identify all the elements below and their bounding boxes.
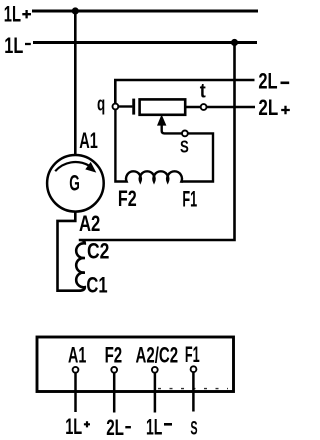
- dotted marks inside box bottom: [158, 388, 228, 390]
- label A2: [79, 211, 100, 236]
- terminal t circle: [201, 104, 207, 110]
- label t: [200, 81, 206, 103]
- box terminal circle F2: [111, 367, 117, 373]
- label F1: [182, 187, 197, 212]
- plus sign of 2L+: [281, 106, 290, 115]
- svg-text:C2: C2: [87, 238, 109, 263]
- svg-text:G: G: [69, 170, 80, 195]
- box label A2/C2: [136, 342, 179, 367]
- svg-text:1L: 1L: [146, 414, 162, 439]
- svg-text:t: t: [200, 81, 206, 103]
- minus sign of 2L-: [281, 82, 290, 85]
- terminal q circle: [113, 104, 119, 110]
- svg-text:F2: F2: [118, 186, 137, 211]
- wire 1L+ bus: [32, 10, 258, 13]
- box terminal circle A1: [73, 367, 79, 373]
- box label F2: [105, 342, 123, 367]
- label 1L-: [4, 33, 23, 58]
- label 2L+: [258, 95, 278, 120]
- svg-text:1L: 1L: [4, 33, 23, 58]
- shunt field winding F2-F1: [115, 109, 183, 181]
- stub wire F2 terminal: [113, 373, 116, 413]
- label C1: [86, 273, 107, 298]
- wire from 1L+ down to armature A1: [74, 11, 77, 155]
- label C2: [87, 238, 109, 263]
- svg-text:1L: 1L: [65, 414, 82, 439]
- stub wire A2/C2 terminal: [154, 373, 157, 413]
- wire S loop to F1 end: [181, 133, 213, 181]
- wire 2L+ from rheostat: [185, 106, 255, 109]
- svg-text:A2/C2: A2/C2: [136, 342, 179, 367]
- svg-text:F2: F2: [105, 342, 123, 367]
- label F2: [118, 186, 137, 211]
- svg-text:C1: C1: [86, 273, 107, 298]
- rotation direction arc arrow: [55, 162, 88, 171]
- box label F1: [185, 342, 200, 367]
- svg-text:A1: A1: [68, 342, 86, 367]
- svg-text:2L: 2L: [106, 415, 124, 440]
- label A1: [79, 128, 98, 153]
- generator G circle: [47, 155, 104, 212]
- box label A1: [68, 342, 86, 367]
- svg-text:A1: A1: [79, 128, 98, 153]
- node junction on 1L-: [231, 39, 238, 46]
- label S: [180, 136, 189, 156]
- svg-text:1L: 1L: [4, 1, 21, 26]
- bottom label s: [190, 417, 197, 439]
- minus sign of 1L-: [25, 43, 31, 45]
- plus sign of 1L+: [22, 10, 31, 18]
- svg-text:F1: F1: [182, 187, 197, 212]
- node junction on 1L+: [72, 7, 79, 14]
- bottom label 1L-: [146, 414, 162, 439]
- svg-text:2L: 2L: [258, 68, 277, 93]
- svg-text:S: S: [190, 417, 197, 439]
- terminal box: [37, 337, 234, 392]
- bottom label 2L-: [106, 415, 124, 440]
- wire q to rheostat contact bar: [118, 105, 132, 107]
- svg-text:2L: 2L: [258, 95, 278, 120]
- bottom label 1L+: [65, 414, 82, 439]
- terminal S circle: [182, 131, 188, 137]
- box terminal circle A2/C2: [152, 367, 158, 373]
- wiper arrow of rheostat: [162, 125, 182, 134]
- svg-text:S: S: [180, 136, 189, 156]
- wire 1L- junction down right side, across, series coil C2-C1, up to A2: [58, 43, 235, 291]
- label 2L-: [258, 68, 277, 93]
- letter G: [69, 170, 80, 195]
- svg-text:q: q: [97, 94, 105, 116]
- svg-text:A2: A2: [79, 211, 100, 236]
- stub wire F1 terminal: [192, 372, 195, 411]
- rheostat contact bar: [132, 99, 135, 115]
- label q: [97, 94, 105, 116]
- rheostat resistor body R: [140, 99, 186, 114]
- wire 1L- bus: [33, 41, 257, 44]
- box terminal circle F1: [191, 366, 197, 372]
- wire 2L- to rheostat corner, down to terminal q: [115, 80, 254, 103]
- label 1L+: [4, 1, 21, 26]
- svg-text:F1: F1: [185, 342, 200, 367]
- stub wire A1 terminal: [74, 373, 77, 412]
